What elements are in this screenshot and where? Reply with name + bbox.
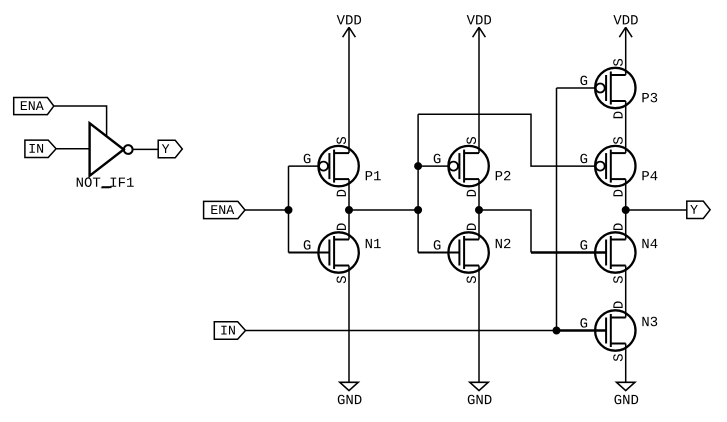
N1 gate bar [328,240,330,266]
P3 pin label D (bottom) [613,112,622,119]
N1 pin label G [304,240,311,250]
P3 gate bar [605,75,607,101]
wire P2 drain to N2 drain [478,179,480,239]
N3 reference designator [642,317,657,327]
N3 pin label S (bottom) [613,354,623,361]
wire VDD2 to P2 source [478,27,480,153]
global label ENA (symbol input) [14,98,54,115]
N2 reference designator [496,239,511,248]
N3 pin label G [580,318,587,328]
P2 pin label D (bottom) [467,190,476,197]
N1 pin label S (bottom) [337,276,347,283]
transistor N4 (NMOS) [580,223,657,283]
wire net W vertical [417,114,419,252]
global label ENA (transistor section) [204,201,245,218]
P1 gate inversion bubble [319,162,328,171]
inverter NOT_IF1 output bubble [124,145,133,154]
P3 pin label G [580,76,587,86]
ground symbol GND (column 3) [614,382,638,404]
ground symbol GND (column 2) [468,382,492,404]
transistor P1 (PMOS) [304,137,381,196]
P4 gate inversion bubble [596,162,605,171]
P4 source/drain stubs [611,152,626,154]
junction node Z [476,207,483,214]
N4 source/drain stubs [611,239,626,241]
P1 source/drain stubs [334,152,349,154]
P4 reference designator [642,171,657,180]
P1 body circle [318,146,358,186]
P1 pin label G [304,154,311,164]
P2 source/drain stubs [464,152,479,154]
power symbol VDD (column 1) [337,15,361,37]
N4 pin label D (top) [613,223,622,230]
wire ENA to N1 gate [289,252,330,254]
junction node W at drains [346,207,353,214]
wire IN to N3 gate [557,329,607,331]
P3 body circle [595,68,635,108]
wire net W to N2 gate [418,252,459,254]
N3 pin label D (top) [613,301,622,308]
N2 channel bar [463,236,465,269]
P2 reference designator [496,171,511,180]
wire VDD1 to P1 source [348,27,350,153]
wire VDD3 to P3 source [625,27,627,75]
N2 source/drain stubs [464,239,479,241]
N4 gate bar [605,240,607,266]
wire IN vertical to P3 gate [556,88,558,331]
wire IN horizontal run [246,330,557,332]
transistor N3 (NMOS) [580,301,657,361]
P1 reference designator [366,171,381,180]
junction node IN [553,327,560,334]
N4 body circle [595,232,635,272]
P2 pin label S (top) [467,137,477,144]
transistor P3 (PMOS) [580,59,657,118]
P2 gate inversion bubble [449,162,458,171]
P3 reference designator [642,93,657,103]
N2 body circle [448,232,488,272]
N4 pin label G [580,240,587,250]
P2 gate bar [458,153,460,179]
N2 pin label G [434,240,441,250]
junction node Y [622,207,629,214]
wire net Y to output flag [626,209,687,211]
global label Y (symbol output) [158,140,182,157]
N4 reference designator [642,239,657,248]
P3 gate inversion bubble [596,84,605,93]
wire bubble to Y [133,148,159,150]
wire N3 source to GND3 [625,344,627,383]
N1 body circle [318,232,358,272]
transistor P2 (PMOS) [434,137,511,196]
power symbol VDD (column 3) [613,15,637,37]
junction node W vertical/horizontal [415,207,422,214]
wire net W to P2 gate [418,165,448,167]
N1 source/drain stubs [334,239,349,241]
transistor N2 (NMOS) [434,223,511,283]
inverter NOT_IF1 triangle [90,123,124,176]
wire net W: inverter1 output horizontal [349,209,418,211]
wire ENA flag to node [245,209,289,211]
global label IN (symbol input) [25,140,56,157]
P2 body circle [448,146,488,186]
N4 channel bar [610,236,612,269]
N1 pin label D (top) [337,223,346,230]
wire net Z to N4 gate horizontal [531,251,606,253]
wire net Z: inverter2 output to N4 gate [479,210,531,253]
P3 source/drain stubs [611,74,626,76]
P1 pin label S (top) [337,137,347,144]
P1 channel bar [333,150,335,183]
P4 pin label G [580,154,587,164]
junction node W at P2 gate branch [415,163,422,170]
power symbol VDD (column 2) [467,15,491,37]
P3 pin label S (top) [613,59,623,66]
wire P1 drain to N1 drain [348,179,350,239]
ground symbol GND (column 1) [338,382,362,404]
P4 pin label D (bottom) [613,190,622,197]
wire P3 drain to P4 source [625,101,627,153]
P3 channel bar [610,72,612,105]
wire ENA to inverter enable pin [54,106,107,136]
wire N2 source to GND2 [478,266,480,383]
transistor P4 (PMOS) [580,137,657,196]
wire ENA to P1 gate [289,165,319,167]
P4 body circle [595,146,635,186]
transistor N1 (NMOS) [304,223,381,283]
wire ENA vertical [288,166,290,252]
junction node ENA [285,207,292,214]
label NOT_IF1 [77,177,134,188]
wire net W top run to P4 gate [418,114,595,166]
N3 gate bar [605,318,607,344]
N1 channel bar [333,236,335,269]
N2 pin label S (bottom) [467,276,477,283]
P4 channel bar [610,150,612,183]
P2 channel bar [463,150,465,183]
P4 pin label S (top) [613,137,623,144]
N3 body circle [595,310,635,350]
P4 gate bar [605,153,607,179]
wire P4 drain to N4 drain [625,179,627,239]
wire N1 source to GND1 [348,266,350,383]
P2 pin label G [434,154,441,164]
P1 pin label D (bottom) [337,190,346,197]
N1 reference designator [366,239,381,248]
global label Y (transistor section output) [687,201,710,218]
N4 pin label S (bottom) [613,276,623,283]
P1 gate bar [328,153,330,179]
wire IN to inverter input [56,148,90,150]
global label IN (transistor section) [214,322,245,340]
wire IN to P3 gate horizontal [557,87,596,89]
N3 channel bar [610,314,612,347]
wire N4 source to N3 drain [625,266,627,318]
N3 source/drain stubs [611,317,626,319]
N2 gate bar [458,240,460,266]
N2 pin label D (top) [467,223,476,230]
